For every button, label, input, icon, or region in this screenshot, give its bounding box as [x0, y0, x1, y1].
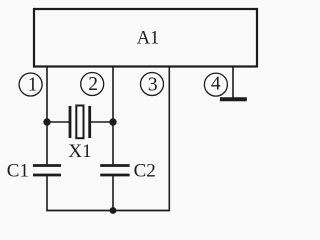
pin 2 label	[81, 73, 104, 96]
wire pin1 vertical upper segment	[46, 66, 48, 165]
crystal X1	[47, 106, 113, 163]
node junction dot bottom (pin2/rail)	[110, 207, 117, 214]
svg-text:X1: X1	[68, 141, 91, 162]
svg-text:3: 3	[148, 75, 158, 96]
crystal body rectangle	[76, 106, 83, 139]
pin 4 label	[204, 73, 227, 96]
wire pin3 vertical	[168, 66, 170, 211]
wire crystal left lead	[47, 121, 70, 123]
crystal left plate	[69, 106, 72, 138]
wire pin4 vertical	[232, 66, 234, 99]
capacitor C2	[100, 161, 156, 182]
wire bottom rail	[46, 210, 170, 212]
svg-text:2: 2	[88, 74, 98, 95]
svg-text:1: 1	[28, 75, 38, 96]
pin 3 label	[141, 73, 164, 96]
svg-text:C2: C2	[134, 161, 156, 182]
svg-text:4: 4	[211, 74, 221, 95]
ground	[220, 97, 247, 101]
svg-text:C1: C1	[7, 161, 29, 182]
wire pin2 vertical upper segment	[112, 66, 114, 165]
pin 1 label	[19, 73, 42, 96]
node junction dot left (pin1/X1)	[43, 118, 50, 125]
wire pin2 vertical lower segment	[112, 176, 114, 211]
capacitor C1	[7, 161, 61, 182]
wire pin1 vertical lower segment	[46, 176, 48, 211]
crystal right plate	[88, 106, 91, 138]
IC block A1	[34, 9, 257, 67]
node junction dot right (pin2/X1)	[109, 118, 116, 125]
svg-text:A1: A1	[137, 28, 160, 48]
wire crystal right lead	[90, 121, 113, 123]
